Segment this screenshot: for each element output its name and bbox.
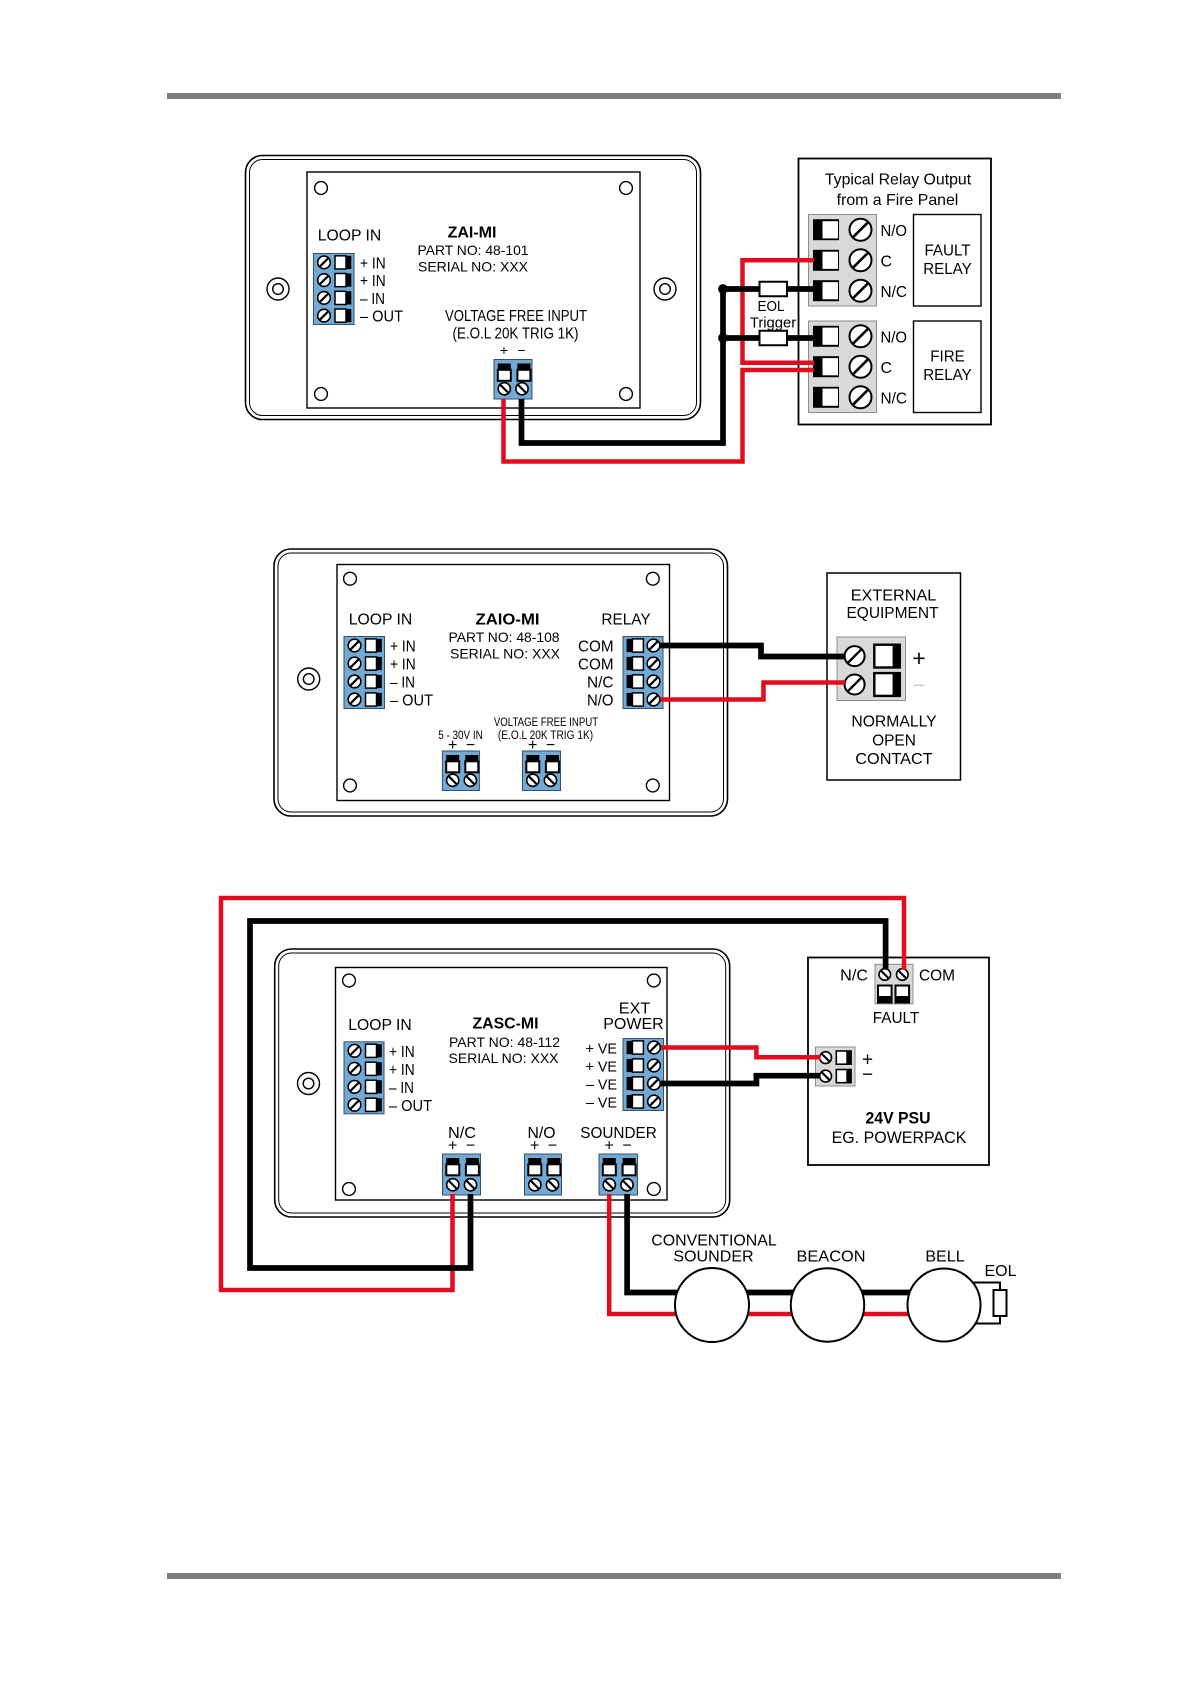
- svg-text:NORMALLY: NORMALLY: [851, 714, 937, 731]
- svg-text:– OUT: – OUT: [360, 309, 403, 326]
- svg-text:+: +: [448, 1138, 457, 1155]
- terminal block FAULT relay (fire panel): [809, 215, 908, 307]
- polarity + - (ZAIO-MI voltage free input): [528, 737, 555, 754]
- terminal block external equipment: [837, 637, 906, 701]
- svg-text:– IN: – IN: [390, 675, 415, 692]
- wire red: ZASC-MI N/C + to PSU FAULT COM (outer loop): [221, 898, 904, 1290]
- svg-text:−: −: [912, 672, 925, 698]
- terminal block RELAY (ZAIO-MI): [623, 637, 663, 709]
- svg-text:FAULT: FAULT: [925, 243, 971, 260]
- pole labels LOOP IN (ZAIO-MI): [390, 639, 433, 710]
- svg-text:ZAIO-MI: ZAIO-MI: [476, 612, 540, 629]
- resistor EOL: [760, 282, 788, 297]
- pole labels LOOP IN (ZASC-MI): [389, 1044, 432, 1115]
- svg-text:ZAI-MI: ZAI-MI: [448, 225, 497, 242]
- ZAI-MI module plate outer border: [246, 156, 701, 420]
- device circle: conventional sounder: [675, 1268, 749, 1342]
- ZASC-MI module label area rect: [336, 968, 668, 1201]
- svg-text:+ IN: + IN: [390, 639, 416, 656]
- svg-text:BEACON: BEACON: [797, 1249, 866, 1266]
- terminal block LOOP IN (ZASC-MI): [344, 1042, 384, 1114]
- label FAULT RELAY: [923, 243, 972, 279]
- terminal block EXT POWER (ZASC-MI): [623, 1039, 664, 1111]
- svg-text:+ IN: + IN: [360, 256, 386, 273]
- terminal block FIRE relay (fire panel): [809, 321, 908, 413]
- svg-text:−: −: [466, 1138, 475, 1155]
- svg-text:– IN: – IN: [360, 291, 385, 308]
- ZAI-MI module corner screw holes: [315, 182, 633, 401]
- pole labels LOOP IN (ZAI-MI): [360, 256, 403, 326]
- polarity + - (SOUNDER block): [605, 1138, 632, 1155]
- wire black: RELAY COM to external equipment +: [661, 646, 846, 657]
- wire black: ZAI-MI - input down and right to junctions: [522, 289, 724, 443]
- svg-text:+: +: [605, 1138, 614, 1155]
- svg-text:FAULT: FAULT: [873, 1010, 920, 1027]
- svg-text:RELAY: RELAY: [923, 367, 972, 384]
- svg-text:FIRE: FIRE: [930, 349, 965, 366]
- ZAI-MI module mounting hole: [267, 278, 289, 300]
- wire red: ZASC-MI EXT POWER +VE to PSU +: [661, 1048, 821, 1058]
- resistor Trigger: [760, 331, 788, 346]
- svg-text:RELAY: RELAY: [923, 261, 972, 278]
- svg-text:– VE: – VE: [586, 1095, 617, 1112]
- svg-text:SERIAL NO: XXX: SERIAL NO: XXX: [449, 1050, 560, 1066]
- wire red: SOUNDER + to sounder circuit: [609, 1194, 909, 1314]
- title Typical Relay Output / from a Fire Panel: [825, 172, 972, 210]
- box FIRE RELAY: [914, 321, 982, 413]
- polarity + - (N/C block): [448, 1138, 475, 1155]
- svg-text:+: +: [500, 342, 508, 358]
- wire black: ZASC-MI EXT POWER -VE to PSU -: [661, 1076, 821, 1084]
- label EXTERNAL EQUIPMENT: [846, 588, 938, 623]
- svg-text:+ IN: + IN: [389, 1062, 415, 1079]
- wire: EOL resistor to bell (bottom): [975, 1316, 1000, 1324]
- svg-text:+ VE: + VE: [586, 1041, 618, 1058]
- svg-text:Typical Relay Output: Typical Relay Output: [825, 172, 972, 189]
- junction node (black, lower): [718, 333, 728, 343]
- label NORMALLY OPEN CONTACT: [851, 714, 937, 769]
- ZAIO-MI module corner screw holes: [344, 572, 660, 792]
- svg-text:−: −: [548, 1138, 557, 1155]
- svg-text:– OUT: – OUT: [390, 693, 433, 710]
- svg-text:EG. POWERPACK: EG. POWERPACK: [832, 1128, 967, 1147]
- svg-text:BELL: BELL: [925, 1249, 964, 1266]
- svg-text:+ IN: + IN: [360, 273, 386, 290]
- device circle: beacon: [791, 1268, 864, 1341]
- svg-text:COM: COM: [578, 657, 614, 674]
- ZAIO-MI module plate outer border: [274, 549, 728, 816]
- terminal block power (PSU): [816, 1047, 856, 1086]
- svg-text:SERIAL NO: XXX: SERIAL NO: XXX: [418, 259, 529, 275]
- ZAIO-MI module mounting hole: [298, 668, 320, 690]
- wire: bell to EOL resistor (top): [972, 1283, 1000, 1291]
- wire black: junction to FIRE relay N/O via Trigger resistor: [723, 335, 814, 341]
- label FIRE RELAY: [923, 349, 972, 385]
- label CONVENTIONAL SOUNDER: [651, 1233, 776, 1266]
- svg-text:EXT: EXT: [619, 1001, 651, 1018]
- box FAULT RELAY: [914, 215, 982, 307]
- svg-text:−: −: [517, 342, 525, 358]
- svg-text:EOL: EOL: [758, 298, 785, 315]
- svg-text:CONVENTIONAL: CONVENTIONAL: [651, 1233, 776, 1250]
- svg-text:+: +: [912, 645, 925, 671]
- terminal block SOUNDER (ZASC-MI): [599, 1154, 638, 1195]
- pole labels RELAY: COM COM N/C N/O: [578, 639, 614, 710]
- svg-text:COM: COM: [919, 968, 955, 985]
- svg-text:– IN: – IN: [389, 1080, 414, 1097]
- svg-text:N/C: N/C: [881, 284, 908, 301]
- svg-text:N/C: N/C: [881, 390, 908, 407]
- svg-text:5 - 30V IN: 5 - 30V IN: [438, 728, 483, 742]
- svg-text:LOOP IN: LOOP IN: [318, 228, 382, 245]
- box EXTERNAL EQUIPMENT: [827, 573, 961, 780]
- terminal block N/C (ZASC-MI): [443, 1154, 481, 1195]
- label EXT POWER: [603, 1001, 664, 1034]
- svg-text:– OUT: – OUT: [389, 1098, 432, 1115]
- svg-text:VOLTAGE FREE INPUT: VOLTAGE FREE INPUT: [494, 717, 598, 729]
- svg-text:RELAY: RELAY: [601, 612, 651, 629]
- svg-text:COM: COM: [578, 639, 614, 656]
- svg-text:N/O: N/O: [881, 329, 908, 346]
- wire black: SOUNDER - to sounder circuit: [627, 1194, 911, 1293]
- svg-text:(E.O.L 20K TRIG 1K): (E.O.L 20K TRIG 1K): [453, 326, 579, 343]
- svg-text:N/C: N/C: [840, 968, 868, 985]
- pole labels EXT POWER: +VE +VE -VE -VE: [586, 1041, 618, 1112]
- junction node (black, upper): [718, 284, 728, 294]
- ZASC-MI module mounting hole: [298, 1073, 320, 1095]
- svg-text:ZASC-MI: ZASC-MI: [473, 1016, 539, 1033]
- terminal block voltage free input (ZAIO-MI): [523, 751, 561, 791]
- svg-text:−: −: [862, 1065, 873, 1086]
- polarity + - (5-30V IN): [448, 737, 475, 754]
- wire red: ZAI-MI + input to FIRE relay C (lower): [504, 370, 815, 462]
- terminal block 5-30V IN (ZAIO-MI): [442, 751, 479, 791]
- svg-text:CONTACT: CONTACT: [855, 751, 933, 768]
- svg-text:+ IN: + IN: [390, 657, 416, 674]
- ZASC-MI module plate outer border: [275, 949, 730, 1217]
- svg-text:POWER: POWER: [603, 1016, 664, 1033]
- ZAI-MI module mounting hole: [654, 278, 676, 300]
- svg-text:+ IN: + IN: [389, 1044, 415, 1061]
- svg-text:−: −: [622, 1138, 631, 1155]
- svg-text:EXTERNAL: EXTERNAL: [851, 588, 937, 605]
- svg-text:N/C: N/C: [587, 675, 614, 692]
- device circle: bell: [908, 1269, 981, 1342]
- svg-text:PART NO: 48-108: PART NO: 48-108: [449, 629, 560, 645]
- ZAIO-MI module label area rect: [337, 565, 670, 801]
- svg-text:PART NO: 48-112: PART NO: 48-112: [449, 1034, 560, 1050]
- svg-text:C: C: [881, 253, 893, 270]
- wire red: FAULT relay C to FIRE relay C (upper): [743, 260, 815, 363]
- svg-text:VOLTAGE FREE INPUT: VOLTAGE FREE INPUT: [445, 308, 587, 325]
- svg-text:– VE: – VE: [586, 1077, 617, 1094]
- polarity + - (N/O block): [530, 1138, 557, 1155]
- svg-text:PART NO: 48-101: PART NO: 48-101: [418, 242, 529, 258]
- wire black: junction to FAULT relay N/C via EOL resistor: [723, 286, 814, 292]
- terminal block N/O (ZASC-MI): [525, 1154, 562, 1195]
- svg-text:SERIAL NO: XXX: SERIAL NO: XXX: [450, 646, 561, 662]
- svg-text:SOUNDER: SOUNDER: [580, 1125, 657, 1142]
- polarity + - (ZAI-MI voltage free input): [500, 342, 526, 358]
- svg-text:C: C: [881, 360, 893, 377]
- terminal block voltage free input (ZAI-MI): [494, 360, 532, 400]
- wire red: RELAY N/O to external equipment -: [661, 683, 846, 700]
- svg-text:SOUNDER: SOUNDER: [673, 1249, 753, 1266]
- terminal block FAULT (PSU): [875, 964, 913, 1004]
- wire black: ZASC-MI N/C - to PSU FAULT N/C (inner loop): [250, 921, 886, 1268]
- svg-text:LOOP IN: LOOP IN: [349, 612, 413, 629]
- ZAI-MI module plate inner border: [250, 160, 697, 416]
- terminal block LOOP IN (ZAIO-MI): [344, 637, 385, 709]
- top rule bar: [167, 93, 1061, 99]
- svg-text:Trigger: Trigger: [750, 315, 796, 332]
- ZAIO-MI module plate inner border: [278, 553, 724, 812]
- ZASC-MI module plate inner border: [279, 953, 726, 1213]
- box 24V PSU: [808, 958, 989, 1166]
- svg-text:EQUIPMENT: EQUIPMENT: [846, 605, 938, 622]
- svg-text:OPEN: OPEN: [872, 733, 916, 750]
- svg-text:24V PSU: 24V PSU: [866, 1109, 931, 1128]
- svg-text:from a Fire Panel: from a Fire Panel: [837, 192, 959, 209]
- box Typical Relay Output from a Fire Panel: [799, 159, 992, 425]
- svg-text:+ VE: + VE: [586, 1059, 618, 1076]
- label EOL / Trigger: [750, 298, 796, 332]
- svg-text:N/O: N/O: [587, 693, 614, 710]
- terminal block LOOP IN (ZAI-MI): [314, 254, 355, 325]
- ZASC-MI module corner screw holes: [343, 974, 661, 1195]
- svg-text:EOL: EOL: [985, 1263, 1017, 1280]
- bottom rule bar: [167, 1573, 1061, 1579]
- resistor EOL (sounder circuit): [994, 1290, 1007, 1316]
- ZAI-MI module label area rect: [307, 172, 640, 408]
- svg-text:+: +: [530, 1138, 539, 1155]
- svg-text:N/O: N/O: [881, 223, 908, 240]
- svg-text:LOOP IN: LOOP IN: [348, 1017, 412, 1034]
